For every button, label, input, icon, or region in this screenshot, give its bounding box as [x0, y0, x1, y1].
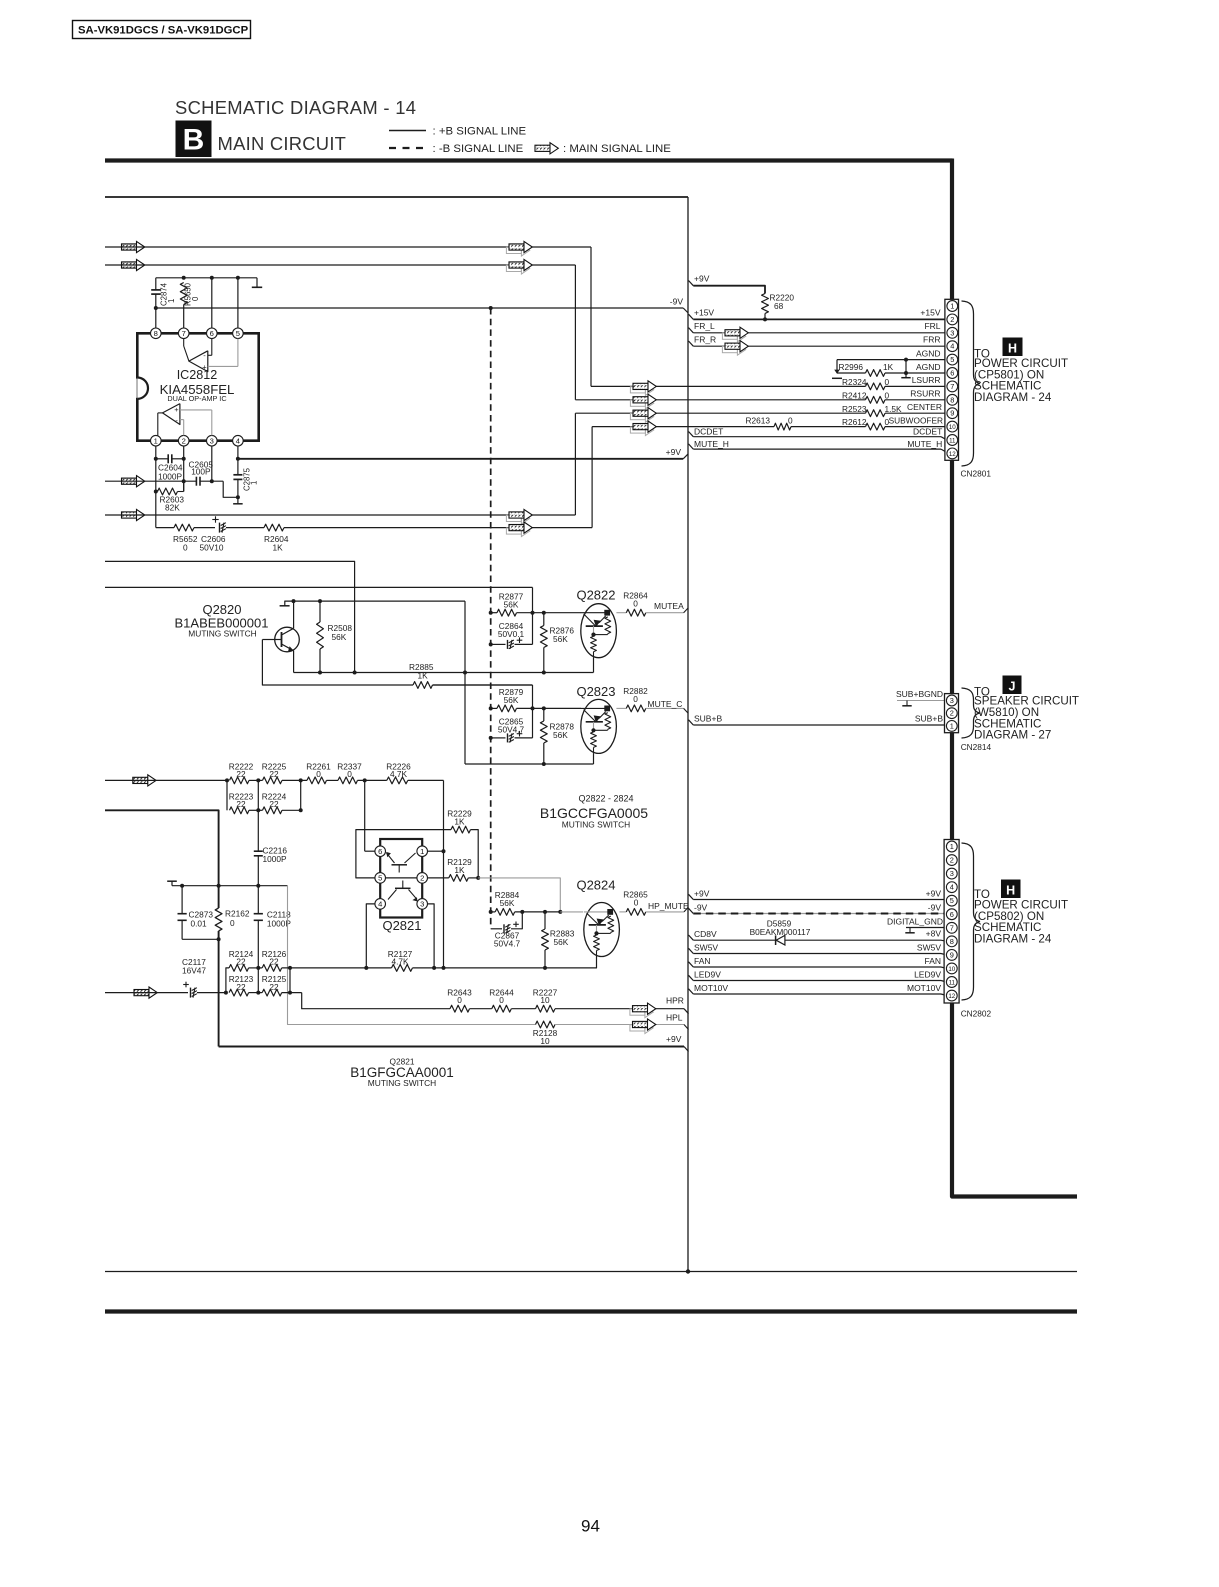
svg-text:LED9V: LED9V: [914, 969, 941, 979]
ground under C2875: [237, 497, 239, 504]
svg-text:+: +: [174, 405, 179, 414]
svg-text:R2162: R2162: [225, 909, 250, 919]
svg-text:1.5K: 1.5K: [885, 404, 903, 414]
margin line to +9V bottom rail: [105, 810, 219, 885]
resistor R2225: [256, 778, 260, 782]
capacitor C2605: [195, 477, 197, 486]
wire pin3 column: [211, 446, 213, 481]
svg-text:50V4.7: 50V4.7: [498, 725, 525, 735]
svg-text:IC2812: IC2812: [177, 368, 218, 382]
svg-text:11: 11: [949, 980, 956, 987]
svg-text:FAN: FAN: [924, 956, 941, 966]
wire pin6 column top: [210, 276, 214, 280]
svg-text:MUTING SWITCH: MUTING SWITCH: [562, 820, 630, 830]
svg-text:4.7K: 4.7K: [391, 957, 409, 967]
CN2801 pin 3: [947, 327, 958, 338]
svg-text:1: 1: [420, 847, 424, 856]
svg-text:LED9V: LED9V: [694, 969, 721, 979]
capacitor C2864: [491, 643, 506, 645]
Q2821 pin 6: [375, 846, 386, 857]
svg-text:-9V: -9V: [928, 902, 942, 912]
svg-text:SUB+BGND: SUB+BGND: [896, 689, 943, 699]
CN2802 pin 9: [946, 950, 957, 961]
svg-text:100P: 100P: [191, 467, 211, 477]
svg-text:7: 7: [950, 923, 954, 932]
C2873 top line with ground stub: [171, 881, 173, 886]
transistor Q2823: [581, 699, 617, 753]
svg-text:FR_L: FR_L: [694, 321, 715, 331]
svg-text:8: 8: [950, 395, 954, 404]
Q2821 pin 4: [375, 899, 386, 910]
svg-text:CENTER: CENTER: [907, 402, 942, 412]
-9V rail: [154, 306, 158, 310]
svg-text:HPL: HPL: [666, 1013, 683, 1023]
svg-text:4: 4: [950, 883, 954, 892]
svg-text:MUTEA: MUTEA: [654, 601, 684, 611]
resistor R2337: [327, 779, 339, 781]
Q2822 emitter common line: [294, 672, 594, 674]
Q2823 emitter line: [593, 753, 595, 764]
svg-text:SW5V: SW5V: [917, 942, 941, 952]
svg-text:22: 22: [269, 769, 279, 779]
MOT10V line: [689, 989, 694, 994]
svg-text:+15V: +15V: [920, 308, 940, 318]
Q2824 emitter: [545, 957, 597, 968]
R2877/C2864 box left on dashed line: [489, 611, 493, 615]
-9V rail hook to bus: [683, 308, 688, 313]
svg-text:R5650: R5650: [184, 282, 193, 306]
svg-text:MUTE_H: MUTE_H: [694, 439, 729, 449]
svg-text:11: 11: [949, 438, 956, 445]
svg-text:0: 0: [499, 995, 504, 1005]
connector CN2814: [945, 694, 959, 733]
svg-text:56K: 56K: [554, 937, 569, 947]
vertical joining Q2822 emitter line: [464, 601, 466, 764]
svg-text:FAN: FAN: [694, 956, 711, 966]
op-amp IC2812 body: [137, 333, 258, 440]
top input line 2: [122, 262, 137, 268]
svg-text:10: 10: [948, 966, 955, 973]
Q2821 pin 3: [417, 899, 428, 910]
Q2820 collector wire: [293, 601, 295, 628]
CN2801 pin 2: [947, 314, 958, 325]
CN2801 pin 10: [947, 421, 958, 432]
svg-text:AGND: AGND: [916, 349, 941, 359]
svg-text:1000P: 1000P: [263, 854, 287, 864]
svg-text:0: 0: [634, 898, 639, 908]
svg-text:Q2823: Q2823: [576, 684, 615, 699]
Q2821 internal transistor 1: [392, 864, 408, 866]
svg-text:+9V: +9V: [926, 888, 942, 898]
R2124 R2126 line: [226, 968, 229, 993]
brace CN2801: [962, 301, 981, 466]
CN2801 pin 7: [947, 381, 958, 392]
resistor R2222: [225, 778, 229, 782]
svg-text:22: 22: [269, 982, 279, 992]
top line 1 vertical: [590, 247, 592, 386]
svg-text:94: 94: [581, 1517, 600, 1536]
resistor R2865: [619, 911, 626, 913]
svg-text:+8V: +8V: [926, 929, 942, 939]
resistor R2127: [392, 965, 413, 972]
svg-text:1: 1: [950, 721, 954, 730]
svg-text:-9V: -9V: [694, 902, 708, 912]
Q2820 emitter wire: [293, 651, 295, 673]
LSURR line with R2324: [591, 385, 866, 387]
svg-text:9: 9: [950, 950, 954, 959]
FAN line: [689, 962, 694, 967]
svg-text:3: 3: [420, 900, 424, 909]
MUTE_H line: [689, 444, 694, 449]
svg-text:10: 10: [540, 1036, 550, 1046]
FR_R line: [689, 341, 694, 346]
capacitor C2875: [236, 457, 240, 461]
top input line 1: [122, 244, 137, 250]
svg-text:5: 5: [950, 896, 954, 905]
svg-text:8: 8: [950, 937, 954, 946]
CN2802 pin 5: [946, 895, 957, 906]
svg-text:1: 1: [950, 842, 954, 851]
R2229 loop: [356, 830, 451, 878]
svg-text:0.01: 0.01: [191, 919, 208, 929]
pin1 net lower line: [156, 527, 174, 529]
svg-text:CN2801: CN2801: [961, 469, 992, 479]
resistor R2129: [449, 875, 469, 882]
SUB+B line: [689, 720, 694, 725]
resistor R2226: [363, 778, 367, 782]
svg-text:1: 1: [950, 302, 954, 311]
svg-text:2: 2: [950, 315, 954, 324]
resistor R2162: [218, 886, 220, 908]
svg-text:5: 5: [950, 355, 954, 364]
wire pin1 column: [155, 446, 157, 528]
IC pin 7: [178, 328, 189, 339]
svg-text:22: 22: [236, 799, 246, 809]
svg-text:4: 4: [950, 342, 954, 351]
svg-text:+15V: +15V: [694, 308, 714, 318]
LED9V line: [689, 975, 694, 980]
wire pin4 column: [237, 446, 239, 459]
svg-text:2: 2: [950, 709, 954, 718]
CN2802 pin 7: [946, 922, 957, 933]
svg-text:1K: 1K: [883, 362, 894, 372]
CN2801 pin 6: [947, 368, 958, 379]
CN2814 pin 2: [946, 708, 957, 719]
svg-text:6: 6: [378, 847, 382, 856]
vertical from R2226 to Q2821 pin1 and bottom line: [443, 780, 445, 968]
resistor R2125: [262, 989, 282, 996]
Q2821 pin 5: [375, 873, 386, 884]
pin5-pin2 line with R2129: [386, 877, 417, 879]
svg-text:-9V: -9V: [670, 297, 684, 307]
resistor R2220: [762, 294, 769, 314]
svg-text:J: J: [1009, 680, 1016, 694]
svg-text:0: 0: [230, 918, 235, 928]
capacitor C2873: [181, 886, 183, 914]
svg-text:H: H: [1008, 342, 1017, 356]
svg-text:CN2814: CN2814: [961, 742, 992, 752]
svg-text:DIAGRAM - 27: DIAGRAM - 27: [974, 729, 1051, 742]
svg-text:Q2822 - 2824: Q2822 - 2824: [578, 794, 633, 804]
transistor Q2822: [581, 604, 617, 658]
svg-text:1000P: 1000P: [158, 472, 182, 482]
svg-text:1K: 1K: [454, 865, 465, 875]
IC pin 3: [207, 435, 218, 446]
wire pin2 column: [183, 446, 185, 492]
transistor Q2820: [275, 627, 300, 652]
svg-text:0: 0: [788, 415, 793, 425]
Q2823 feed corner (from R2885): [433, 684, 533, 686]
+rail above IC: [156, 277, 257, 279]
svg-text:1: 1: [167, 299, 176, 303]
svg-text:Q2821: Q2821: [382, 918, 421, 933]
resistor R2603: [154, 490, 158, 494]
Q2820 top line with collector: [285, 601, 294, 606]
svg-text:4.7K: 4.7K: [390, 769, 408, 779]
svg-text:0: 0: [457, 995, 462, 1005]
junction bus/bottom line: [686, 1269, 690, 1273]
corner down to HPR line: [302, 993, 450, 1009]
resistor R2884: [495, 909, 515, 916]
svg-text:7: 7: [950, 382, 954, 391]
svg-text:82K: 82K: [165, 503, 180, 513]
CN2802 pin 1: [946, 841, 957, 852]
Q2821 pin1 wire: [428, 850, 444, 852]
svg-text:0: 0: [885, 377, 890, 387]
resistor R2604: [264, 524, 284, 531]
capacitor C2867: [491, 928, 502, 930]
CN2802 pin 6: [946, 909, 957, 920]
title rule: [105, 158, 953, 162]
svg-text:1K: 1K: [418, 671, 429, 681]
CN2814 pin 1: [946, 721, 957, 732]
wire pin3 to C2875: [223, 481, 238, 497]
Q2821 internal transistor 2: [395, 887, 411, 889]
IC2812 notch: [137, 378, 148, 399]
svg-text:56K: 56K: [553, 634, 568, 644]
wire pin7 column: [183, 305, 185, 329]
second arrow on R2604 net: [506, 525, 529, 536]
svg-text:6: 6: [950, 910, 954, 919]
Q2821 pin6 feed: [364, 780, 366, 851]
svg-text:DIAGRAM - 24: DIAGRAM - 24: [974, 391, 1052, 404]
RSURR line with R2412: [575, 399, 865, 401]
svg-text:5: 5: [236, 329, 240, 338]
svg-text:DCDET: DCDET: [913, 426, 942, 436]
svg-text:56K: 56K: [504, 695, 519, 705]
Q2821 pin3 wire: [428, 904, 435, 968]
bottom line continues through R2127: [366, 967, 391, 969]
svg-text:Q2822: Q2822: [576, 588, 615, 603]
svg-text:MUTE_C: MUTE_C: [648, 699, 683, 709]
svg-text:1K: 1K: [273, 543, 284, 553]
svg-text:: +B SIGNAL LINE: : +B SIGNAL LINE: [433, 126, 527, 138]
svg-text:6: 6: [210, 329, 214, 338]
svg-text:SUB+B: SUB+B: [694, 714, 722, 724]
HPL line (gray) with R2128: [536, 1021, 556, 1028]
svg-text:MOT10V: MOT10V: [694, 983, 728, 993]
svg-text:12: 12: [949, 451, 956, 458]
svg-text:MUTE_H: MUTE_H: [907, 439, 942, 449]
CN2801 pin 1: [947, 301, 958, 312]
net line from margin to Q2822 cell: [105, 586, 533, 588]
Q2821 pin 1: [417, 846, 428, 857]
svg-text:22: 22: [269, 799, 279, 809]
svg-text:FR_R: FR_R: [694, 334, 716, 344]
svg-text:56K: 56K: [332, 632, 347, 642]
wire pin8 column: [155, 308, 157, 328]
op-amp unit B (pins 1,2,3): [163, 404, 180, 425]
resistor R2882: [616, 707, 626, 709]
svg-text:4: 4: [236, 436, 240, 445]
C2117 input line: [134, 990, 149, 996]
CN2801 pin 4: [947, 341, 958, 352]
capacitor C2118: [257, 886, 259, 914]
IC pin 6: [207, 328, 218, 339]
svg-text:16V47: 16V47: [182, 966, 206, 976]
svg-text:56K: 56K: [504, 600, 519, 610]
CN2801 pin 12: [947, 448, 958, 459]
header model box: [73, 21, 251, 39]
svg-text:+9V: +9V: [666, 1034, 682, 1044]
svg-text:SUB+B: SUB+B: [915, 714, 943, 724]
svg-text:SUBWOOFER: SUBWOOFER: [889, 415, 943, 425]
svg-text:+9V: +9V: [694, 888, 710, 898]
CN2802 pin 12: [946, 990, 957, 1001]
input line arrow (pin3 net): [122, 478, 137, 484]
resistor R2643: [450, 1005, 470, 1012]
resistor R2864: [616, 612, 626, 614]
CN2802 pin 8: [946, 936, 957, 947]
op-amp unit A (pins 5,6,7): [189, 351, 208, 372]
svg-text:MUTING SWITCH: MUTING SWITCH: [368, 1078, 436, 1088]
svg-text:56K: 56K: [500, 898, 515, 908]
connector CN2801: [945, 299, 959, 460]
svg-text:56K: 56K: [553, 730, 568, 740]
svg-text:3: 3: [950, 869, 954, 878]
svg-text:0: 0: [633, 694, 638, 704]
svg-text:R2324: R2324: [842, 377, 867, 387]
svg-text:3: 3: [210, 436, 214, 445]
bottom thin frame line: [105, 1271, 1077, 1273]
CN2802 pin 11: [946, 977, 957, 988]
svg-text:R2412: R2412: [842, 390, 867, 400]
capacitor C2604: [154, 457, 158, 461]
capacitor C2874: [155, 278, 157, 290]
capacitor C2865: [491, 737, 506, 739]
resistor R2123: [229, 989, 249, 996]
svg-text:R2996: R2996: [839, 362, 864, 372]
svg-text:B0EAKM000117: B0EAKM000117: [750, 927, 811, 937]
+15V line: [689, 314, 694, 319]
CN2801 pin 5: [947, 354, 958, 365]
IC pin 1: [151, 435, 162, 446]
CN2802 pin 4: [946, 882, 957, 893]
DCDET line: [689, 432, 694, 437]
FR_L line: [689, 328, 694, 333]
transistor Q2824: [584, 903, 620, 957]
CN2802 pin 10: [946, 963, 957, 974]
SW5V line: [689, 948, 694, 953]
capacitor C2216: [257, 810, 259, 851]
Q2821 pin 2: [417, 873, 428, 884]
SUBWOOFER line with R2613 R2612: [592, 426, 774, 428]
svg-text:5: 5: [378, 874, 382, 883]
svg-text:0: 0: [885, 390, 890, 400]
R2884 line on dashed bus: [489, 910, 493, 914]
resistor R2879: [489, 706, 493, 710]
capacitor C2606: [219, 523, 221, 533]
section letter B: [176, 121, 212, 158]
svg-text:CN2802: CN2802: [961, 1009, 992, 1019]
svg-text:C2875: C2875: [243, 467, 252, 491]
svg-text:FRL: FRL: [924, 321, 940, 331]
Q2820 base wire: [262, 639, 275, 641]
svg-text:2: 2: [182, 436, 186, 445]
Q2822 emitter to common: [593, 658, 595, 673]
-9V dashed line to CN2802: [689, 908, 694, 913]
svg-text:0: 0: [347, 769, 352, 779]
svg-text:3: 3: [950, 328, 954, 337]
Q2824: [560, 911, 583, 913]
svg-text:22: 22: [236, 957, 246, 967]
brace CN2802: [962, 843, 981, 1000]
svg-text:1K: 1K: [454, 817, 465, 827]
gray link to Q2824 base line: [478, 878, 560, 912]
brace CN2814: [962, 688, 981, 738]
gray HPL riser: [288, 886, 536, 1025]
net line from margin to Q2820 collector top: [105, 561, 355, 672]
CN2802 pin 3: [946, 868, 957, 879]
svg-text:0: 0: [316, 769, 321, 779]
IC pin 4: [233, 435, 244, 446]
svg-text:1: 1: [154, 436, 158, 445]
svg-text:SCHEMATIC DIAGRAM - 14: SCHEMATIC DIAGRAM - 14: [175, 97, 416, 118]
connector CN2802: [944, 840, 959, 1004]
svg-text:FRR: FRR: [923, 334, 940, 344]
-B dashed bus line: [489, 306, 493, 310]
svg-text:2: 2: [950, 856, 954, 865]
svg-text:HPR: HPR: [666, 996, 684, 1006]
CN2801 pin 11: [947, 435, 958, 446]
diode D5859: [775, 935, 777, 945]
resistor R2878: [542, 706, 546, 710]
svg-text:3: 3: [950, 696, 954, 705]
svg-text:DUAL OP-AMP IC: DUAL OP-AMP IC: [167, 394, 226, 403]
top line 2 vertical: [574, 265, 576, 400]
resistor R2885: [413, 682, 433, 689]
SUBWOOFER vertical riser: [591, 427, 593, 528]
capacitor C2117: [190, 988, 192, 998]
resistor R2229: [451, 826, 471, 833]
svg-text:10: 10: [540, 995, 550, 1005]
svg-text:6: 6: [950, 369, 954, 378]
resistor R2644: [492, 1005, 512, 1012]
CN2802 pin 2: [946, 855, 957, 866]
AGND rung A (pin5): [837, 359, 945, 361]
svg-text:7: 7: [182, 329, 186, 338]
svg-text:2: 2: [420, 874, 424, 883]
CENTER line with R2523: [575, 412, 865, 414]
svg-text:12: 12: [948, 993, 955, 1000]
+9V bottom rail: [219, 1046, 684, 1048]
svg-text:R2523: R2523: [842, 404, 867, 414]
svg-text:Q2824: Q2824: [576, 878, 615, 893]
CN2801 pin 9: [947, 408, 958, 419]
resistor R2261: [299, 778, 303, 782]
svg-text:22: 22: [236, 769, 246, 779]
svg-text:LSURR: LSURR: [912, 375, 941, 385]
